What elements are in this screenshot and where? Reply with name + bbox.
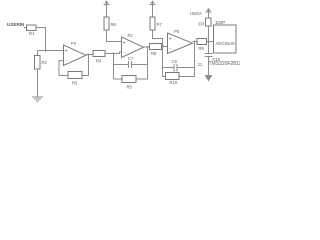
- wire: [208, 42, 210, 54]
- op-amp U2: [122, 33, 144, 58]
- resistor R8: [150, 44, 162, 57]
- wire: [162, 47, 164, 77]
- wire: [114, 78, 123, 80]
- node F: [194, 41, 196, 43]
- node A: [45, 50, 47, 52]
- svg-text:R7: R7: [157, 22, 163, 27]
- svg-text:C7: C7: [128, 56, 134, 61]
- svg-text:DSP: DSP: [216, 20, 226, 26]
- wire: [38, 50, 64, 52]
- wire: [37, 51, 39, 56]
- wire: [208, 57, 210, 77]
- node G: [208, 41, 210, 43]
- svg-text:+: +: [123, 41, 126, 47]
- svg-text:R1: R1: [29, 31, 35, 36]
- wire: [207, 41, 214, 43]
- op-amp U4: [64, 41, 87, 66]
- capacitor C9: [172, 59, 178, 72]
- resistor R9: [197, 39, 207, 52]
- capacitor C7: [128, 56, 134, 68]
- svg-text:R6: R6: [111, 22, 117, 27]
- svg-text:R4: R4: [96, 59, 102, 64]
- wire: [59, 60, 64, 62]
- wire: [86, 54, 93, 56]
- node B: [88, 54, 90, 56]
- ground arrow: [206, 76, 212, 81]
- op-amp U5: [168, 29, 193, 54]
- svg-text:R8: R8: [151, 51, 157, 56]
- wire: [163, 76, 166, 78]
- wire: [179, 42, 195, 77]
- power U5GA: [190, 9, 212, 18]
- svg-text:P2: P2: [128, 33, 134, 38]
- wire: [153, 30, 163, 47]
- resistor R3: [68, 72, 82, 86]
- svg-text:R2: R2: [42, 60, 48, 65]
- resistor R7: [150, 17, 163, 30]
- svg-text:P4: P4: [71, 41, 77, 46]
- resistor R5: [122, 76, 136, 90]
- svg-text:R10: R10: [170, 80, 178, 85]
- wire: [36, 28, 46, 51]
- svg-text:U5GA: U5GA: [190, 11, 202, 16]
- power VCC2: [150, 1, 156, 17]
- resistor D3: [199, 18, 212, 27]
- wire: [105, 52, 122, 54]
- wire: [59, 61, 68, 76]
- node E: [162, 46, 164, 48]
- svg-text:+: +: [65, 49, 68, 55]
- svg-text:ADCINA0: ADCINA0: [216, 41, 236, 46]
- svg-text:21: 21: [198, 62, 203, 67]
- wire: [193, 41, 198, 43]
- svg-text:USERIN: USERIN: [7, 22, 25, 27]
- node C: [113, 53, 115, 55]
- wire: [113, 54, 115, 80]
- svg-text:R3: R3: [72, 81, 78, 86]
- wire: [24, 27, 27, 29]
- svg-text:C9: C9: [172, 59, 178, 64]
- wire: [163, 67, 175, 69]
- port USERIN: [7, 22, 25, 27]
- resistor R6: [104, 17, 117, 30]
- wire: [177, 67, 195, 69]
- wire: [114, 64, 129, 66]
- wire: [132, 64, 148, 66]
- wire: [136, 47, 148, 79]
- svg-text:D3: D3: [199, 22, 205, 27]
- wire: [82, 55, 89, 76]
- node D: [147, 46, 149, 48]
- wire: [162, 46, 168, 48]
- svg-text:P5: P5: [174, 29, 180, 34]
- wire: [107, 30, 122, 42]
- chip DSP: [214, 20, 237, 53]
- resistor R2: [35, 56, 48, 70]
- wire: [208, 26, 210, 42]
- capacitor C10: [198, 54, 221, 68]
- svg-text:TMS320F2812: TMS320F2812: [209, 61, 241, 67]
- wire: [144, 46, 150, 48]
- resistor R1: [27, 25, 37, 36]
- resistor R4: [93, 51, 105, 64]
- resistor R10: [166, 73, 180, 86]
- svg-text:+: +: [169, 37, 172, 43]
- power VCC1: [104, 1, 110, 17]
- wire: [37, 69, 39, 97]
- svg-text:R9: R9: [199, 46, 205, 51]
- svg-text:R5: R5: [127, 85, 133, 90]
- ground: [32, 97, 43, 101]
